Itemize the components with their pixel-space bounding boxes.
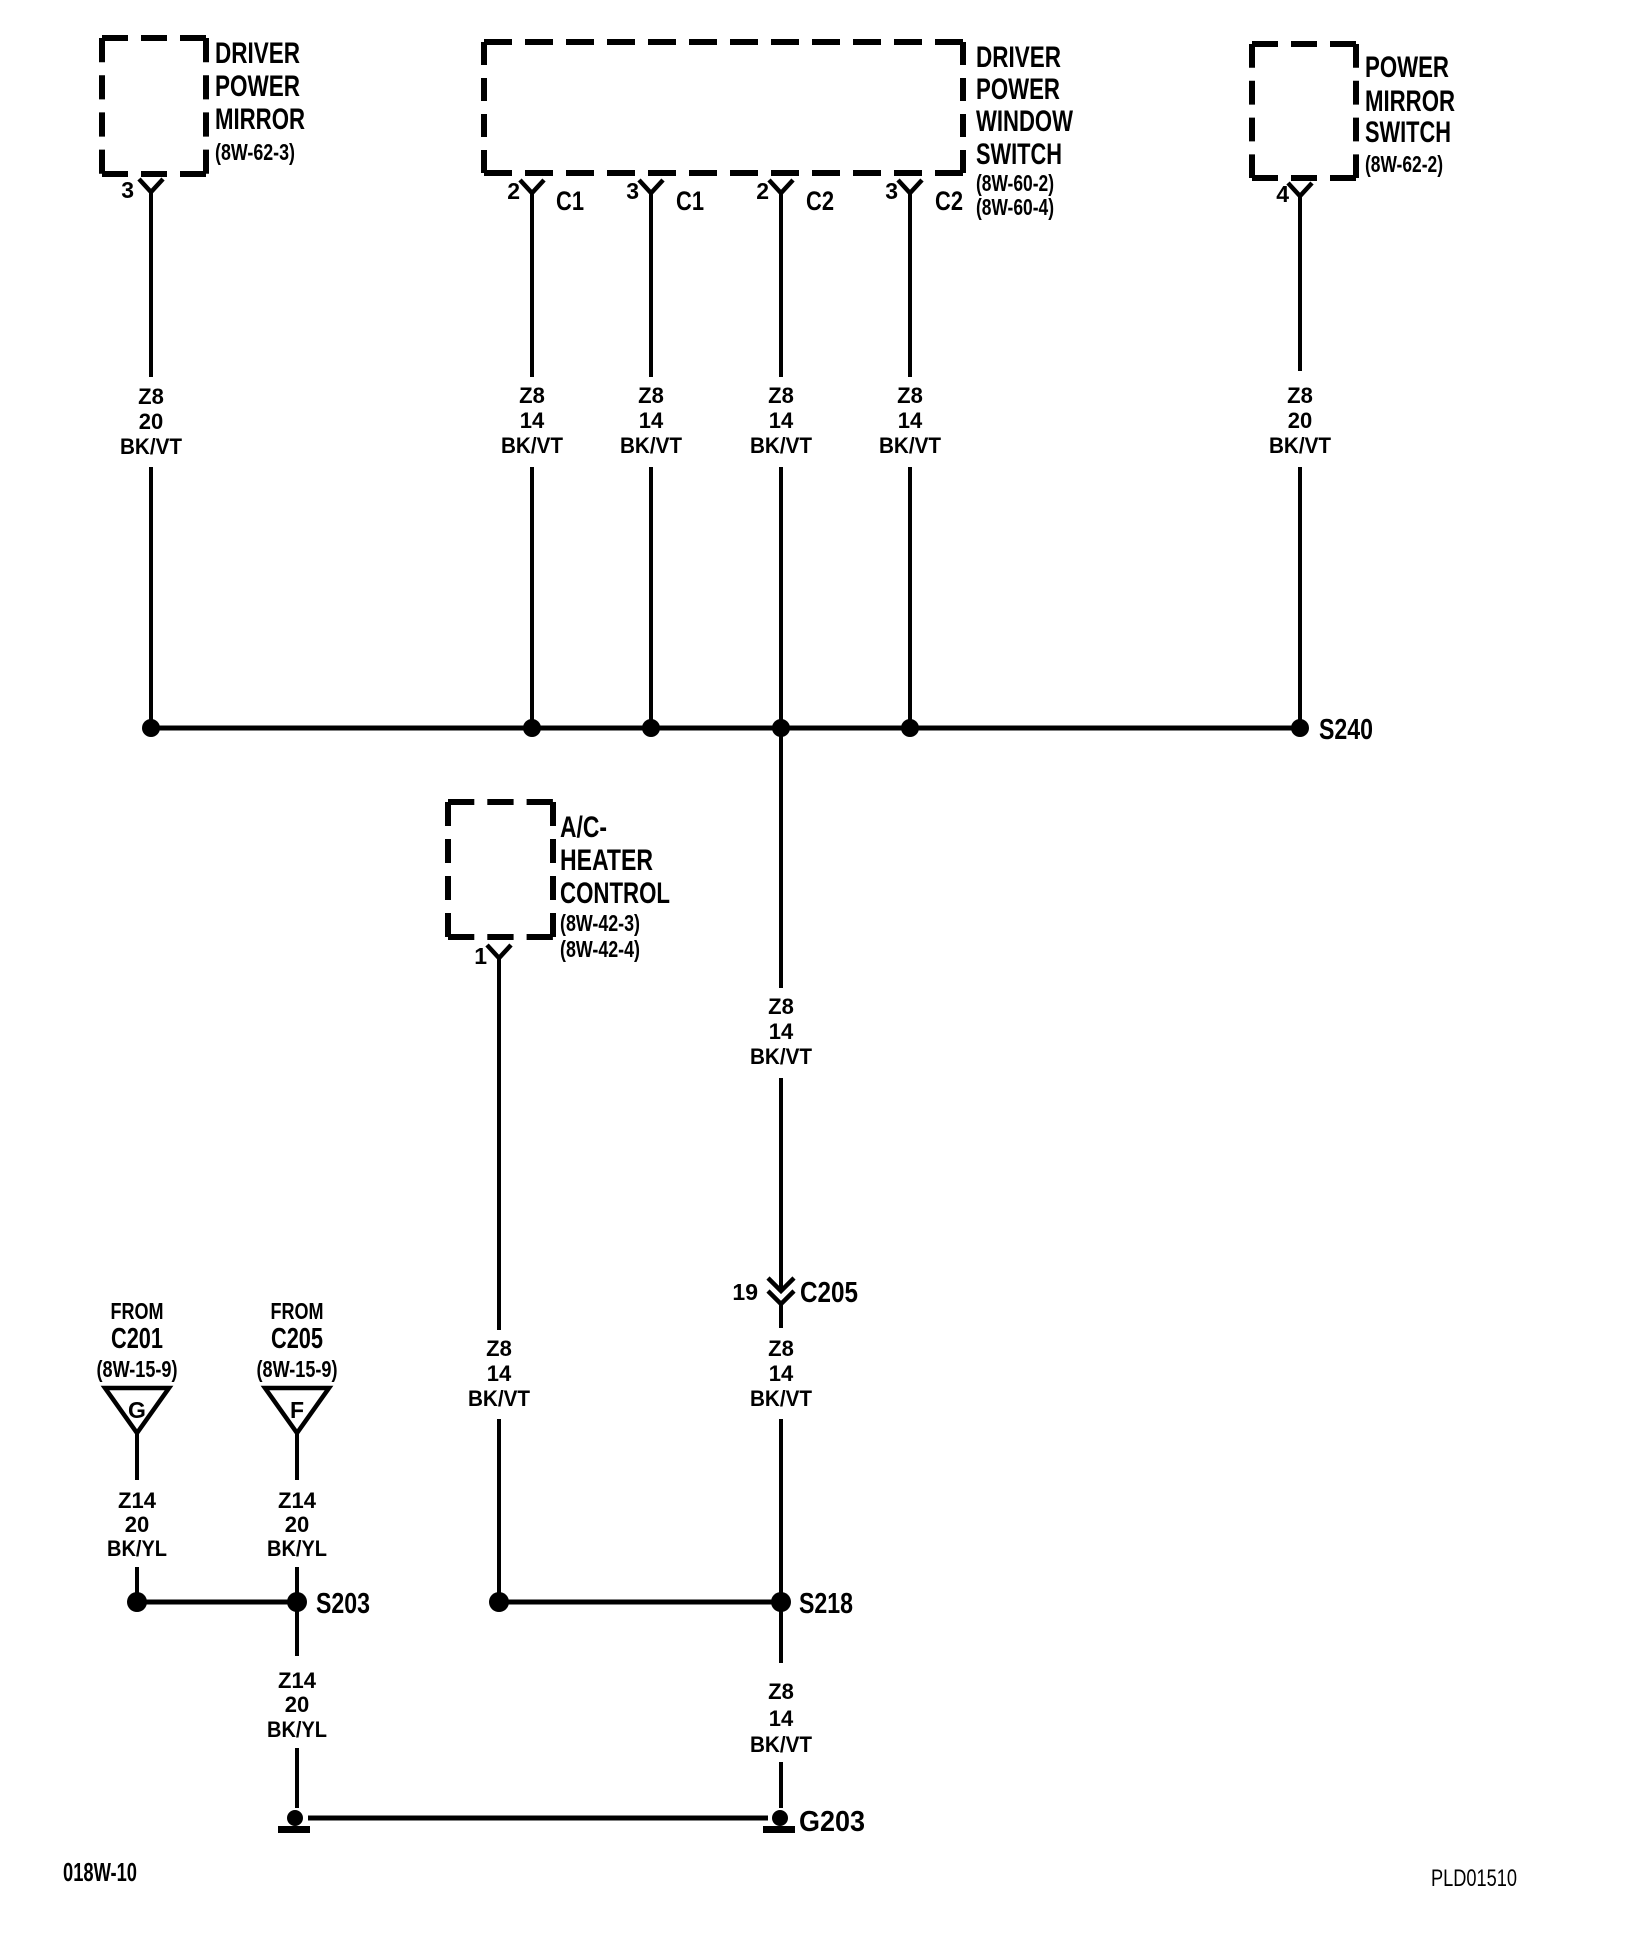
svg-text:14: 14	[769, 408, 794, 433]
svg-text:BK/VT: BK/VT	[501, 433, 564, 458]
svg-text:14: 14	[769, 1019, 794, 1044]
svg-text:C2: C2	[806, 186, 834, 216]
svg-text:14: 14	[769, 1706, 794, 1731]
svg-text:2: 2	[756, 178, 769, 204]
component box POWER MIRROR SWITCH	[1252, 44, 1356, 178]
svg-text:C201: C201	[111, 1323, 163, 1355]
connector FROM C205 (8W-15-9) triangle F	[257, 1298, 338, 1433]
junction dot S240 leg 1	[142, 719, 160, 737]
svg-text:Z8: Z8	[897, 383, 923, 408]
svg-text:BK/YL: BK/YL	[267, 1536, 327, 1561]
component box DRIVER POWER MIRROR	[102, 38, 206, 174]
svg-text:S218: S218	[799, 1588, 853, 1620]
component box A/C-HEATER CONTROL	[448, 802, 553, 937]
svg-text:C1: C1	[676, 186, 704, 216]
svg-text:20: 20	[125, 1512, 149, 1537]
svg-text:C205: C205	[271, 1323, 323, 1355]
svg-text:(8W-15-9): (8W-15-9)	[97, 1356, 178, 1382]
wire Z8 14 BK/VT from S240 down	[750, 728, 813, 1290]
wire Z14 20 BK/YL from C205	[267, 1433, 327, 1602]
label POWER MIRROR SWITCH (8W-62-2)	[1365, 51, 1455, 177]
svg-text:3: 3	[885, 178, 898, 204]
pin 4 of power mirror switch	[1276, 181, 1312, 207]
svg-text:Z14: Z14	[278, 1488, 317, 1513]
label DRIVER POWER MIRROR (8W-62-3)	[215, 37, 305, 165]
svg-text:14: 14	[898, 408, 923, 433]
splice S218	[499, 1600, 781, 1605]
svg-text:3: 3	[121, 177, 134, 203]
connector 19 C205	[732, 1277, 858, 1309]
wire Z8 14 BK/VT below C205	[750, 1304, 813, 1602]
svg-text:14: 14	[520, 408, 545, 433]
svg-text:Z14: Z14	[278, 1668, 317, 1693]
svg-text:BK/VT: BK/VT	[1269, 433, 1332, 458]
pin 3 C2 of window switch	[885, 178, 963, 216]
svg-text:DRIVER: DRIVER	[976, 41, 1061, 74]
svg-text:1: 1	[474, 943, 487, 969]
junction dot S240 leg 5	[901, 719, 919, 737]
wire Z8 14 BK/VT pin 3 C2	[879, 192, 942, 728]
svg-text:PLD01510: PLD01510	[1431, 1865, 1517, 1892]
wire Z8 14 BK/VT pin 3 C1	[620, 192, 683, 728]
svg-text:MIRROR: MIRROR	[1365, 85, 1455, 118]
svg-text:Z8: Z8	[768, 383, 794, 408]
svg-text:Z8: Z8	[768, 1679, 794, 1704]
svg-text:3: 3	[626, 178, 639, 204]
pin 3 C1 of window switch	[626, 178, 704, 216]
component box DRIVER POWER WINDOW SWITCH	[484, 42, 963, 173]
svg-text:POWER: POWER	[976, 73, 1060, 106]
svg-text:Z8: Z8	[768, 1336, 794, 1361]
svg-text:14: 14	[769, 1361, 794, 1386]
junction dot S218 left	[489, 1592, 509, 1612]
svg-text:A/C-: A/C-	[560, 811, 607, 844]
junction dot S203	[287, 1592, 307, 1612]
svg-text:G203: G203	[799, 1806, 865, 1838]
svg-text:20: 20	[1288, 408, 1312, 433]
svg-text:(8W-62-2): (8W-62-2)	[1365, 151, 1443, 177]
svg-text:FROM: FROM	[111, 1298, 164, 1324]
svg-text:BK/VT: BK/VT	[620, 433, 683, 458]
svg-text:C205: C205	[800, 1277, 858, 1309]
svg-text:SWITCH: SWITCH	[1365, 116, 1451, 149]
junction dot S240 leg 2	[523, 719, 541, 737]
svg-text:HEATER: HEATER	[560, 844, 653, 877]
wire Z8 20 BK/VT from driver power mirror	[120, 191, 183, 728]
svg-text:BK/VT: BK/VT	[750, 1732, 813, 1757]
svg-text:14: 14	[639, 408, 664, 433]
wire Z14 20 BK/YL from C201	[107, 1433, 167, 1602]
svg-text:Z8: Z8	[768, 994, 794, 1019]
pin 2 C2 of window switch	[756, 178, 834, 216]
svg-text:FROM: FROM	[271, 1298, 324, 1324]
junction dot S203 left	[127, 1592, 147, 1612]
wire Z8 14 BK/VT pin 2 C2	[750, 192, 813, 728]
svg-text:Z8: Z8	[519, 383, 545, 408]
ground bus G203	[308, 1816, 768, 1821]
svg-text:SWITCH: SWITCH	[976, 138, 1062, 171]
svg-text:2: 2	[507, 178, 520, 204]
svg-text:Z8: Z8	[638, 383, 664, 408]
label A/C-HEATER CONTROL (8W-42-3) (8W-42-4)	[560, 811, 670, 962]
svg-text:BK/VT: BK/VT	[750, 433, 813, 458]
svg-text:(8W-62-3): (8W-62-3)	[215, 139, 295, 165]
svg-text:Z14: Z14	[118, 1488, 157, 1513]
pin 3 of driver power mirror	[121, 177, 163, 203]
ground symbol right G203	[763, 1810, 795, 1833]
ground symbol left G203	[278, 1810, 310, 1833]
junction dot S240 leg 4	[772, 719, 790, 737]
label DRIVER POWER WINDOW SWITCH (8W-60-2) (8W-60-4)	[976, 41, 1073, 220]
splice S203	[137, 1600, 297, 1605]
svg-text:20: 20	[285, 1692, 309, 1717]
svg-text:C1: C1	[556, 186, 584, 216]
svg-text:BK/VT: BK/VT	[750, 1044, 813, 1069]
svg-text:C2: C2	[935, 186, 963, 216]
svg-text:018W-10: 018W-10	[63, 1857, 137, 1887]
svg-text:DRIVER: DRIVER	[215, 37, 300, 70]
connector FROM C201 (8W-15-9) triangle G	[97, 1298, 178, 1433]
svg-text:BK/VT: BK/VT	[120, 434, 183, 459]
svg-text:BK/VT: BK/VT	[468, 1386, 531, 1411]
svg-text:20: 20	[139, 409, 163, 434]
junction dot S218	[771, 1592, 791, 1612]
svg-text:Z8: Z8	[486, 1336, 512, 1361]
svg-text:CONTROL: CONTROL	[560, 877, 670, 910]
wire Z14 20 BK/YL from S203 to ground	[267, 1602, 327, 1808]
svg-text:Z8: Z8	[138, 384, 164, 409]
splice bus S240	[151, 726, 1300, 731]
svg-text:(8W-42-3): (8W-42-3)	[560, 910, 640, 936]
pin 2 C1 of window switch	[507, 178, 584, 216]
svg-text:BK/YL: BK/YL	[107, 1536, 167, 1561]
svg-text:Z8: Z8	[1287, 383, 1313, 408]
svg-text:G: G	[128, 1397, 146, 1423]
wire Z8 14 BK/VT from A/C-heater control	[468, 957, 531, 1602]
svg-text:(8W-15-9): (8W-15-9)	[257, 1356, 338, 1382]
pin 1 of A/C-heater control	[474, 943, 511, 969]
svg-text:(8W-60-2): (8W-60-2)	[976, 170, 1054, 196]
svg-text:BK/VT: BK/VT	[879, 433, 942, 458]
svg-text:(8W-60-4): (8W-60-4)	[976, 194, 1054, 220]
junction dot S240 leg 3	[642, 719, 660, 737]
svg-text:S203: S203	[316, 1588, 370, 1620]
wire Z8 14 BK/VT pin 2 C1	[501, 192, 564, 728]
wire Z8 14 BK/VT from S218 to ground	[750, 1602, 813, 1808]
svg-text:POWER: POWER	[215, 70, 300, 103]
svg-text:S240: S240	[1319, 714, 1373, 746]
svg-text:F: F	[290, 1397, 304, 1423]
svg-text:20: 20	[285, 1512, 309, 1537]
svg-text:WINDOW: WINDOW	[976, 105, 1073, 138]
svg-text:POWER: POWER	[1365, 51, 1449, 84]
svg-text:BK/YL: BK/YL	[267, 1717, 327, 1742]
svg-text:MIRROR: MIRROR	[215, 103, 305, 136]
svg-text:BK/VT: BK/VT	[750, 1386, 813, 1411]
svg-text:19: 19	[732, 1279, 758, 1305]
svg-text:14: 14	[487, 1361, 512, 1386]
wire Z8 20 BK/VT from power mirror switch	[1269, 195, 1332, 728]
svg-text:(8W-42-4): (8W-42-4)	[560, 936, 640, 962]
junction dot S240 right end	[1291, 719, 1309, 737]
